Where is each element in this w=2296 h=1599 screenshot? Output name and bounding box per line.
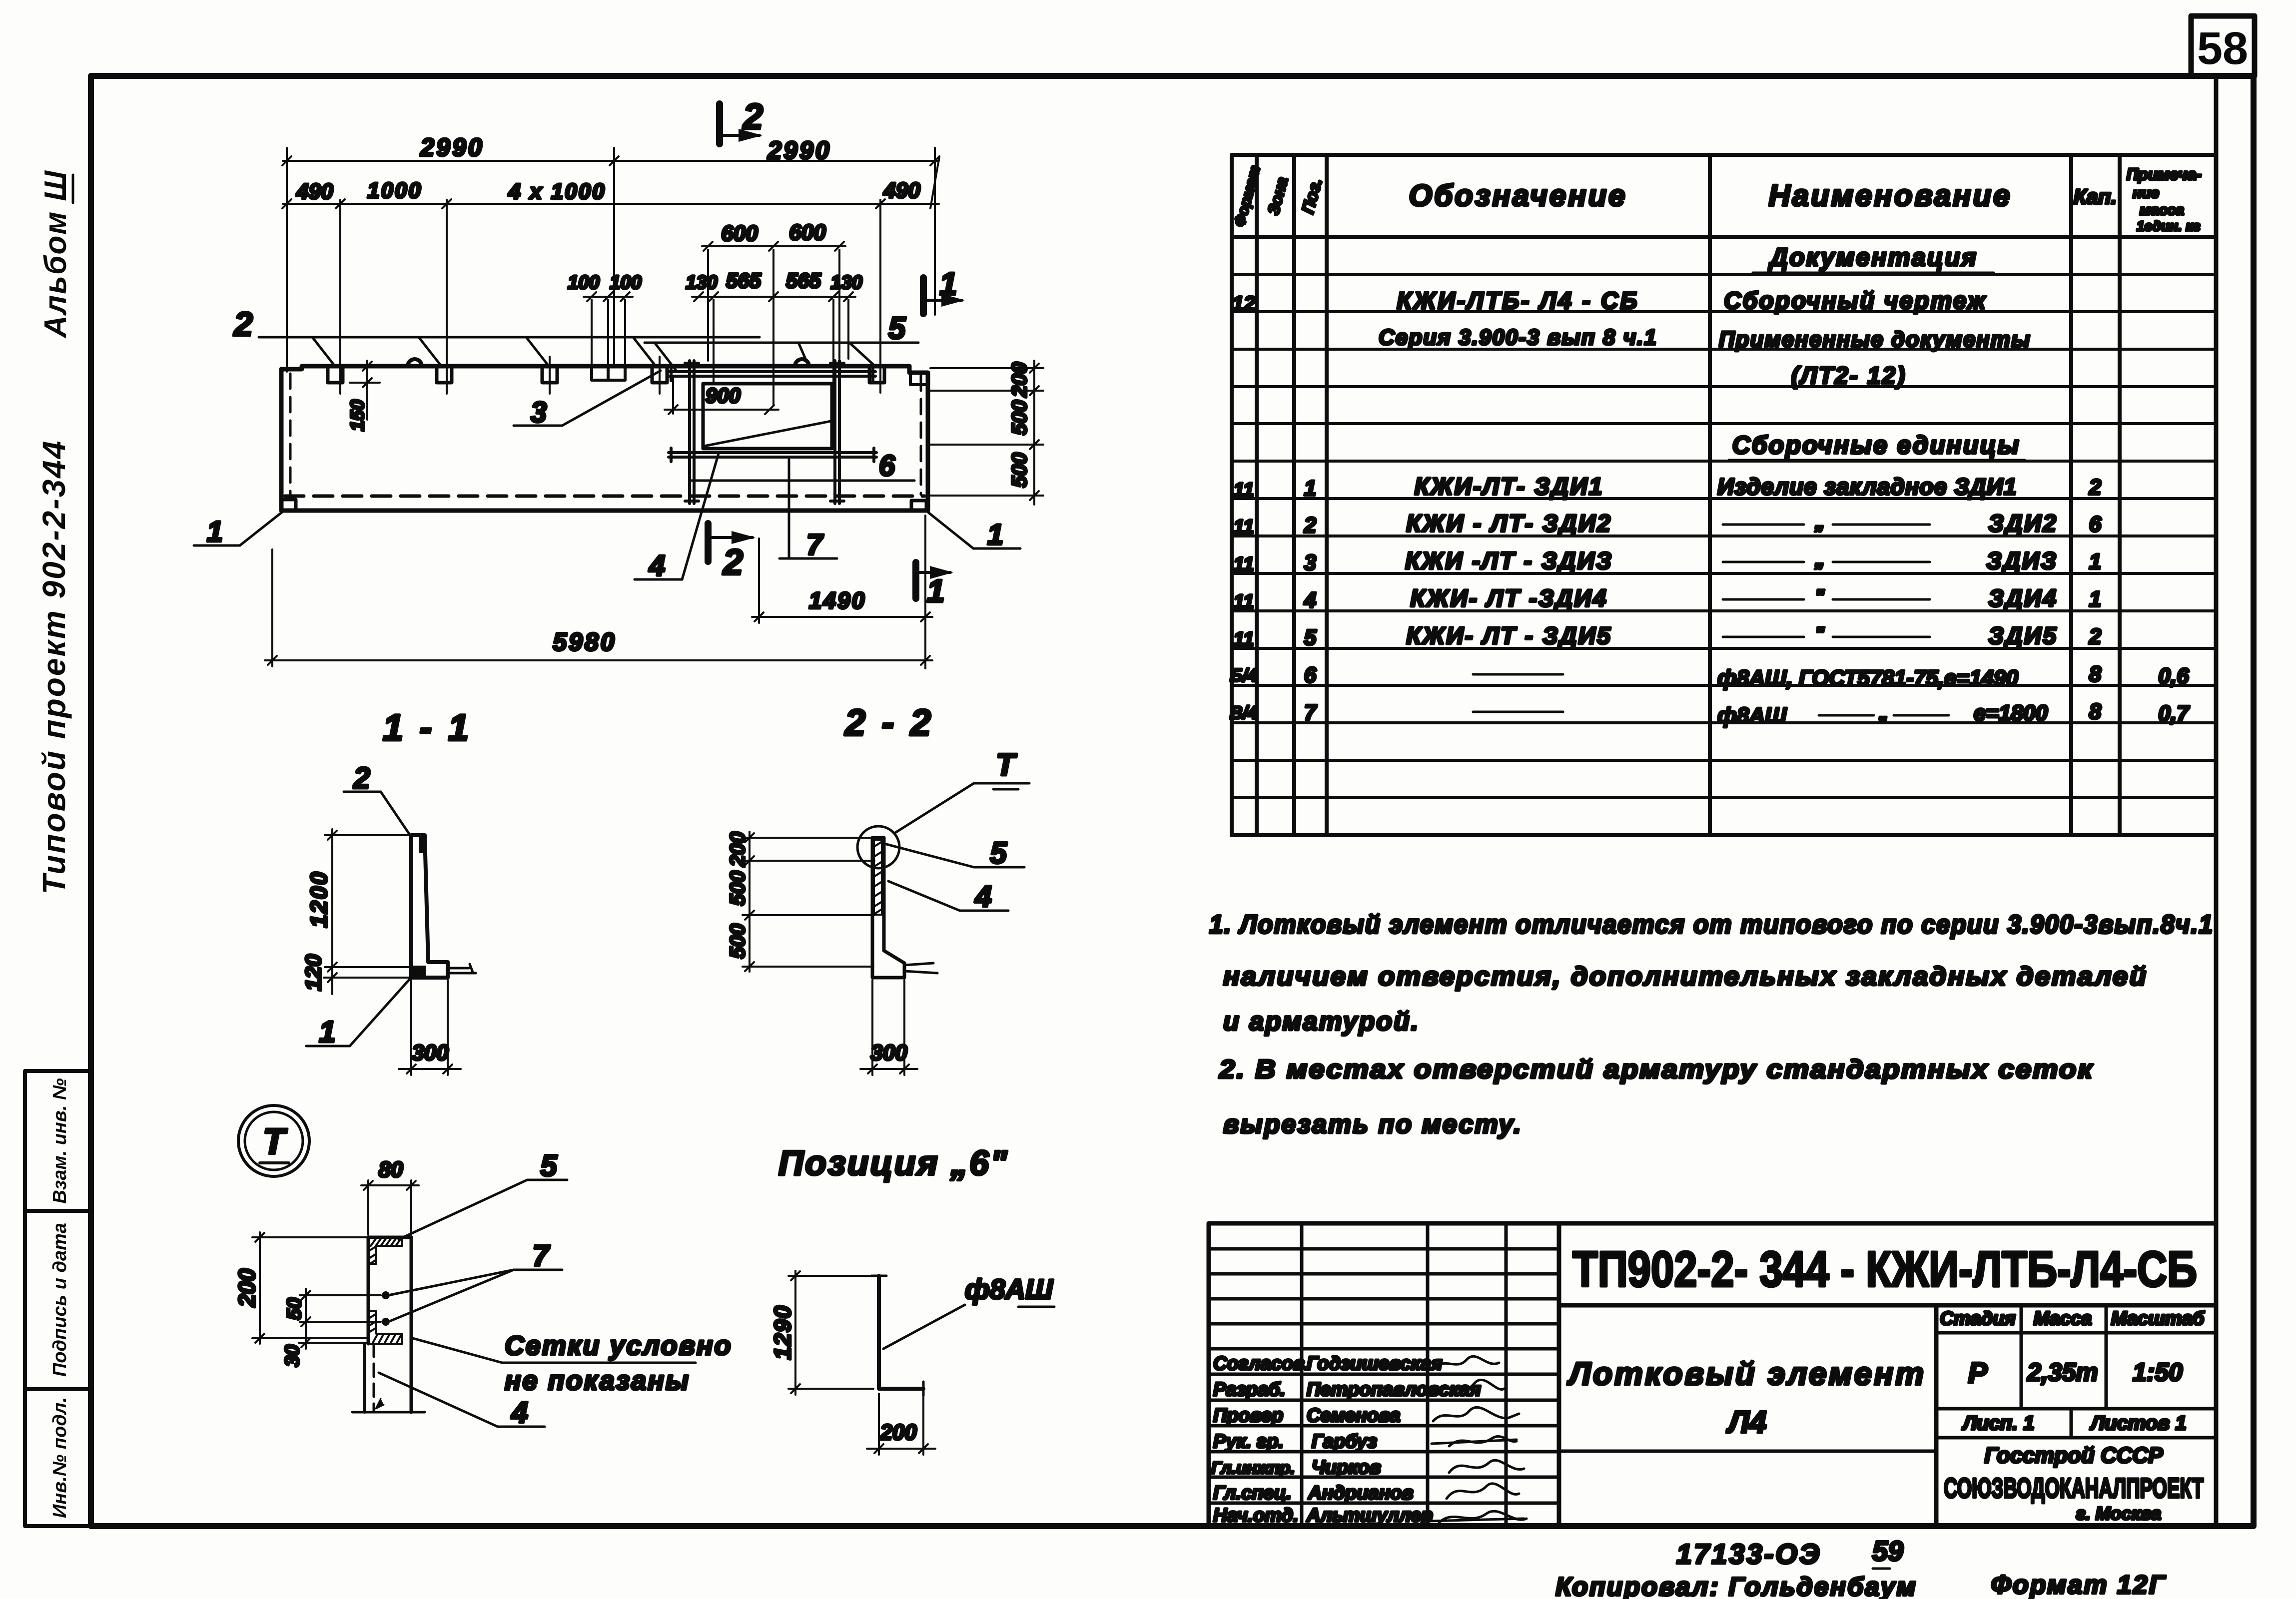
- svg-text:6: 6: [1304, 663, 1317, 687]
- label 4 with leader: [635, 454, 719, 579]
- svg-text:1: 1: [319, 1015, 335, 1049]
- table headers: [1231, 164, 1263, 229]
- svg-text:СОЮЗВОДОКАНАЛПРОЕКТ: СОЮЗВОДОКАНАЛПРОЕКТ: [1944, 1472, 2204, 1504]
- svg-text:Масса: Масса: [2034, 1308, 2092, 1329]
- svg-text:3: 3: [1304, 550, 1316, 575]
- svg-text:1:50: 1:50: [2133, 1358, 2183, 1386]
- embedded item pos.3 tab 4: [652, 366, 667, 383]
- embedded plate pos.2 (dark) at top: [419, 836, 425, 853]
- svg-text:1: 1: [1304, 476, 1316, 501]
- rebar pos.7 left pair: [685, 361, 699, 504]
- svg-text:1: 1: [207, 516, 223, 548]
- svg-text:Гарбуз: Гарбуз: [1312, 1431, 1377, 1452]
- svg-text:Листов 1: Листов 1: [2089, 1412, 2186, 1434]
- wall profile section 2-2: [872, 838, 904, 978]
- svg-text:Стадия: Стадия: [1940, 1308, 2015, 1329]
- svg-text:0,6: 0,6: [2158, 664, 2189, 688]
- svg-text:1: 1: [2089, 587, 2101, 611]
- table grid: [1232, 155, 2216, 835]
- svg-text:1: 1: [927, 573, 945, 609]
- svg-text:Б/4: Б/4: [1230, 665, 1258, 685]
- svg-text:7: 7: [532, 1239, 550, 1272]
- svg-text:490: 490: [296, 179, 333, 204]
- embedded item pos.3 tab 5: [869, 366, 884, 383]
- svg-text:1. Лотковый элемент отличается: 1. Лотковый элемент отличается от типово…: [1209, 910, 2214, 939]
- dim 300 section 1-1: [399, 980, 461, 1075]
- svg-text:1: 1: [987, 519, 1003, 551]
- svg-text:(ЛТ2- 12): (ЛТ2- 12): [1791, 363, 1907, 389]
- svg-text:Кап.: Кап.: [2074, 185, 2117, 208]
- svg-text:11: 11: [1233, 516, 1254, 538]
- svg-text:5: 5: [1304, 625, 1317, 650]
- protruding dowel 2-2: [904, 963, 937, 973]
- project label rotated: Типовой проект 902-2-344: [36, 440, 72, 895]
- svg-text:100: 100: [610, 272, 641, 293]
- svg-text:Рук. гр.: Рук. гр.: [1213, 1431, 1284, 1452]
- wall profile section 1-1: [411, 835, 448, 978]
- section marker 2 bottom: [708, 524, 756, 582]
- svg-text:2: 2: [722, 542, 743, 582]
- lifting loop 2: [795, 359, 809, 366]
- top-right corner recess: [910, 373, 925, 385]
- svg-text:200: 200: [879, 1420, 917, 1445]
- svg-text:1290: 1290: [769, 1305, 795, 1360]
- svg-text:4: 4: [1304, 588, 1316, 612]
- svg-text:Альтшуллер: Альтшуллер: [1306, 1505, 1433, 1526]
- svg-text:ТП902-2- 344 - КЖИ-ЛТБ-Л4-СБ: ТП902-2- 344 - КЖИ-ЛТБ-Л4-СБ: [1572, 1241, 2197, 1297]
- svg-text:ЗДИЗ: ЗДИЗ: [1986, 548, 2058, 574]
- svg-text:11: 11: [1233, 479, 1254, 501]
- svg-text:4: 4: [649, 549, 665, 582]
- opening sloped bottom line: [704, 421, 831, 446]
- svg-text:Обозначение: Обозначение: [1409, 179, 1627, 212]
- dim 200 detail T: [252, 1232, 367, 1344]
- svg-text:Масштаб: Масштаб: [2111, 1308, 2205, 1329]
- svg-text:Примеча-: Примеча-: [2127, 165, 2202, 183]
- svg-text:30: 30: [281, 1345, 303, 1367]
- svg-text:": ": [1815, 623, 1825, 645]
- inner bottom dashed line: [285, 495, 924, 498]
- label ф8АIII position 6: [883, 1305, 965, 1349]
- svg-text:565: 565: [726, 269, 762, 292]
- bottom-right lifting notch: [911, 501, 926, 511]
- svg-text:200: 200: [726, 832, 749, 867]
- svg-text:300: 300: [412, 1041, 449, 1065]
- svg-text:КЖИ - ЛТ- ЗДИ2: КЖИ - ЛТ- ЗДИ2: [1406, 511, 1612, 537]
- svg-text:5: 5: [540, 1149, 558, 1182]
- section marker 1 right top: [923, 266, 965, 314]
- bent bar pos.6: [879, 1276, 923, 1389]
- detail circle T on section 2-2: [857, 826, 899, 868]
- dim line 100/100: [584, 292, 633, 380]
- left dims 200/500/500 section 2-2: [743, 832, 875, 972]
- embedded item pos.3 tab 3: [542, 366, 557, 383]
- svg-text:8: 8: [2089, 662, 2102, 686]
- svg-text:2990: 2990: [767, 136, 831, 164]
- svg-text:Изделие закладное ЗДИ1: Изделие закладное ЗДИ1: [1717, 474, 2017, 500]
- svg-text:4: 4: [511, 1396, 528, 1429]
- right side dims 200/500/500: [930, 361, 1043, 505]
- rebar pos.6 bottom pair: [669, 448, 876, 462]
- svg-text:1000: 1000: [367, 178, 422, 203]
- bottom-left lifting notch: [281, 500, 296, 511]
- svg-text:Андрианов: Андрианов: [1308, 1483, 1414, 1504]
- svg-text:12: 12: [1232, 292, 1256, 315]
- dim 1200 section 1-1: [325, 829, 413, 994]
- svg-text:59: 59: [1872, 1535, 1903, 1567]
- svg-text:1 - 1: 1 - 1: [383, 707, 472, 748]
- dim 150 at tab1: [350, 361, 380, 420]
- svg-text:500: 500: [726, 924, 749, 959]
- signature rows labels: [1211, 1353, 1310, 1526]
- svg-text:Подпись и дата: Подпись и дата: [49, 1223, 70, 1377]
- svg-text:Госстрой СССР: Госстрой СССР: [1984, 1443, 2163, 1468]
- svg-text:2: 2: [2089, 475, 2102, 500]
- weld dots pos.7: [382, 1291, 390, 1299]
- hidden inner edges (dashed): [290, 374, 921, 499]
- dim line 490/1000/4x1000/490: [282, 156, 939, 208]
- svg-text:0,7: 0,7: [2158, 701, 2190, 726]
- svg-text:Лотковый элемент: Лотковый элемент: [1567, 1356, 1926, 1392]
- svg-text:130: 130: [830, 272, 862, 293]
- svg-text:ф8АШ: ф8АШ: [965, 1273, 1053, 1305]
- svg-text:120: 120: [301, 954, 326, 991]
- section cut line 2 with leaders to tabs: [259, 337, 760, 365]
- svg-text:Согласов.: Согласов.: [1213, 1353, 1310, 1374]
- svg-text:Лисп. 1: Лисп. 1: [1961, 1412, 2034, 1434]
- rebar pos.7 right pair: [830, 361, 844, 504]
- svg-text:Чирков: Чирков: [1312, 1457, 1381, 1478]
- svg-text:вырезать по месту.: вырезать по месту.: [1223, 1110, 1523, 1139]
- svg-text:Поз.: Поз.: [1298, 176, 1326, 216]
- dim line 130/565/565/130: [692, 292, 855, 382]
- svg-text:3: 3: [531, 396, 547, 429]
- svg-text:ф8АШ, ГОСТ5781-75,е=1490: ф8АШ, ГОСТ5781-75,е=1490: [1717, 666, 2019, 690]
- dim 30 detail T: [299, 1338, 367, 1347]
- label 2 section 1-1: [344, 792, 411, 836]
- svg-text:ЗДИ5: ЗДИ5: [1988, 623, 2058, 649]
- svg-text:6: 6: [2089, 512, 2102, 536]
- svg-text:„: „: [1814, 511, 1825, 533]
- leader line 5 to embedded tabs: [645, 343, 918, 370]
- svg-text:Серия 3.900-3 вып 8 ч.1: Серия 3.900-3 вып 8 ч.1: [1379, 325, 1657, 350]
- svg-text:е=1800: е=1800: [1974, 701, 2048, 725]
- svg-text:г. Москва: г. Москва: [2076, 1503, 2161, 1524]
- svg-text:2: 2: [1304, 513, 1317, 537]
- signatures squiggles: [1430, 1356, 1527, 1523]
- top angle pos.5 hatched: [368, 1237, 402, 1265]
- svg-text:Наименование: Наименование: [1768, 179, 2012, 212]
- svg-text:„: „: [1814, 548, 1825, 570]
- svg-text:ЗДИ2: ЗДИ2: [1988, 511, 2058, 537]
- protruding dowel 1-1: [448, 964, 476, 973]
- label 4 detail T: [379, 1373, 545, 1427]
- rebar pos.6 top pair: [669, 367, 875, 381]
- corner label 1 right: [928, 513, 1020, 548]
- label 6 with leader: [690, 480, 914, 482]
- embedded item pos.3 tab 1: [328, 366, 343, 383]
- dim extension verticals from top dims: [286, 148, 288, 372]
- svg-text:4: 4: [974, 880, 991, 913]
- svg-text:2: 2: [742, 97, 763, 137]
- svg-text:и арматурой.: и арматурой.: [1223, 1007, 1420, 1036]
- label 5 section 2-2: [886, 844, 1024, 867]
- svg-text:5: 5: [990, 836, 1007, 870]
- svg-text:Сетки условно: Сетки условно: [505, 1331, 733, 1361]
- dim 1490: [752, 516, 932, 668]
- svg-text:Разраб.: Разраб.: [1213, 1379, 1285, 1400]
- sheet number box 58: [2191, 16, 2255, 76]
- svg-text:100: 100: [568, 272, 599, 293]
- dim 50 detail T: [300, 1289, 381, 1349]
- svg-text:Взам. инв. №: Взам. инв. №: [49, 1078, 70, 1204]
- label T leader: [894, 783, 1029, 833]
- svg-text:7: 7: [806, 529, 824, 561]
- svg-text:Типовой проект 902-2-344: Типовой проект 902-2-344: [36, 440, 72, 895]
- svg-text:2: 2: [353, 761, 370, 795]
- svg-text:5: 5: [888, 311, 906, 346]
- lower wall continuation with dashed bar: [352, 1344, 425, 1412]
- svg-text:1200: 1200: [306, 871, 332, 928]
- lower angle pos.2 hatched: [368, 1311, 402, 1344]
- svg-text:1: 1: [2089, 549, 2101, 574]
- svg-text:80: 80: [379, 1157, 403, 1182]
- svg-text:Копировал: Гольденбаум: Копировал: Гольденбаум: [1555, 1573, 1917, 1599]
- corner label 1 left: [194, 512, 283, 545]
- svg-text:17133-ОЭ: 17133-ОЭ: [1676, 1538, 1821, 1570]
- svg-text:Примененные документы: Примененные документы: [1719, 327, 2031, 352]
- title block grid: [1209, 1223, 2216, 1526]
- svg-text:Семенова: Семенова: [1307, 1405, 1401, 1426]
- svg-text:В/4: В/4: [1230, 702, 1258, 723]
- svg-text:Р: Р: [1968, 1357, 1988, 1389]
- svg-text:масса: масса: [2140, 202, 2184, 218]
- svg-text:900: 900: [706, 384, 741, 407]
- svg-text:2990: 2990: [420, 133, 484, 161]
- svg-text:2,35т: 2,35т: [2027, 1358, 2098, 1386]
- left margin stamp boxes: [25, 1071, 91, 1526]
- svg-text:565: 565: [786, 269, 821, 292]
- svg-text:2 - 2: 2 - 2: [844, 702, 934, 743]
- svg-text:2: 2: [233, 305, 253, 343]
- label 7 with leader: [779, 460, 837, 558]
- svg-text:Т: Т: [263, 1122, 288, 1162]
- svg-text:Т: Т: [996, 748, 1017, 782]
- svg-text:490: 490: [883, 178, 920, 203]
- svg-text:6: 6: [879, 450, 895, 482]
- album label rotated: Альбом III: [38, 170, 73, 339]
- svg-text:Зона: Зона: [1264, 175, 1292, 217]
- svg-text:Альбом Ш: Альбом Ш: [38, 170, 73, 339]
- svg-text:200: 200: [1007, 362, 1031, 398]
- svg-text:КЖИ -ЛТ - ЗДИЗ: КЖИ -ЛТ - ЗДИЗ: [1405, 548, 1613, 574]
- dim 200 position 6: [867, 1394, 935, 1455]
- embedded item pos.3 tab 2: [437, 366, 452, 383]
- label 3 with leader: [514, 371, 661, 426]
- svg-text:600: 600: [789, 220, 826, 245]
- lifting loop 1: [408, 359, 422, 366]
- dim line 600/600: [702, 242, 845, 406]
- dim line 2990+2990: [282, 156, 939, 165]
- svg-text:Л4: Л4: [1726, 1405, 1766, 1440]
- svg-text:130: 130: [686, 272, 717, 293]
- svg-text:Сборочный чертеж: Сборочный чертеж: [1724, 288, 1987, 314]
- dim 120 section 1-1: [324, 973, 410, 982]
- detail T bubble: [238, 1105, 309, 1176]
- embedded plate pos.1 (dark): [411, 966, 426, 978]
- svg-text:ЗДИ4: ЗДИ4: [1988, 585, 2058, 612]
- svg-text:Гл.инжпр.: Гл.инжпр.: [1211, 1459, 1295, 1478]
- svg-text:не показаны: не показаны: [505, 1366, 690, 1396]
- svg-text:7: 7: [1304, 700, 1318, 725]
- svg-text:КЖИ-ЛТБ- Л4 - СБ: КЖИ-ЛТБ- Л4 - СБ: [1397, 288, 1639, 314]
- label 7 detail T: [391, 1270, 562, 1321]
- dim 900 at opening: [665, 378, 778, 414]
- svg-text:Сборочные единицы: Сборочные единицы: [1732, 431, 2021, 459]
- svg-text:2. В местах отверстий арматуру: 2. В местах отверстий арматуру стандартн…: [1219, 1055, 2094, 1084]
- svg-text:1: 1: [939, 266, 957, 302]
- svg-text:КЖИ-ЛТ- ЗДИ1: КЖИ-ЛТ- ЗДИ1: [1415, 474, 1604, 500]
- dim 300 section 2-2: [860, 980, 917, 1075]
- svg-text:5980: 5980: [553, 628, 616, 656]
- svg-text:„: „: [1878, 703, 1888, 724]
- enlarged wall top piece: [368, 1237, 411, 1412]
- svg-text:ние: ние: [2133, 185, 2159, 201]
- svg-text:500: 500: [1007, 400, 1031, 435]
- svg-text:Документация: Документация: [1768, 243, 1978, 271]
- svg-text:Нач.отд.: Нач.отд.: [1213, 1505, 1298, 1526]
- svg-text:1един. кг: 1един. кг: [2137, 218, 2201, 234]
- svg-text:50: 50: [283, 1298, 305, 1320]
- svg-text:8: 8: [2089, 699, 2102, 724]
- svg-text:200: 200: [234, 1268, 260, 1307]
- svg-text:11: 11: [1233, 553, 1254, 575]
- svg-text:1490: 1490: [809, 587, 866, 613]
- svg-text:Позиция „6": Позиция „6": [778, 1143, 1008, 1182]
- table right edge extension to frame top: [2214, 76, 2219, 1526]
- dim 1290 position 6: [788, 1271, 875, 1395]
- label 4 section 2-2: [888, 881, 1008, 911]
- svg-text:Инв.№ подл.: Инв.№ подл.: [49, 1397, 70, 1518]
- svg-text:300: 300: [870, 1041, 907, 1065]
- svg-text:2: 2: [2089, 624, 2102, 649]
- embedded channel pos.4 (hatched strip): [874, 840, 882, 915]
- svg-text:КЖИ- ЛТ - ЗДИ5: КЖИ- ЛТ - ЗДИ5: [1406, 623, 1612, 649]
- svg-text:600: 600: [721, 221, 758, 246]
- svg-text:наличием отверстия, дополнител: наличием отверстия, дополнительных закла…: [1223, 962, 2148, 991]
- svg-text:150: 150: [347, 400, 368, 431]
- opening outline: [703, 384, 832, 449]
- label 1 section 1-1: [306, 979, 410, 1046]
- signature rows names: [1306, 1353, 1481, 1526]
- svg-text:11: 11: [1233, 591, 1254, 613]
- section marker 1 bottom: [916, 562, 953, 609]
- embedded plate item pos.1: [592, 366, 625, 380]
- svg-text:500: 500: [726, 871, 749, 906]
- svg-text:": ": [1815, 586, 1825, 608]
- svg-text:ф8АШ: ф8АШ: [1717, 703, 1787, 728]
- svg-text:4 x 1000: 4 x 1000: [508, 179, 606, 204]
- svg-text:Провер: Провер: [1213, 1405, 1283, 1426]
- body outline of tray element: [281, 366, 928, 511]
- svg-text:11: 11: [1233, 628, 1254, 650]
- dim 80 detail T: [361, 1180, 419, 1235]
- dim 5980: [265, 549, 932, 666]
- svg-text:500: 500: [1007, 453, 1031, 488]
- label 5 detail T: [399, 1180, 567, 1239]
- svg-text:Годзишевская: Годзишевская: [1307, 1353, 1443, 1374]
- svg-text:Гл.спец.: Гл.спец.: [1213, 1483, 1292, 1504]
- svg-text:58: 58: [2197, 23, 2248, 74]
- svg-text:Формат 12Г: Формат 12Г: [1991, 1571, 2166, 1599]
- svg-text:КЖИ- ЛТ -ЗДИ4: КЖИ- ЛТ -ЗДИ4: [1410, 585, 1607, 612]
- section marker 2 top: [720, 97, 763, 144]
